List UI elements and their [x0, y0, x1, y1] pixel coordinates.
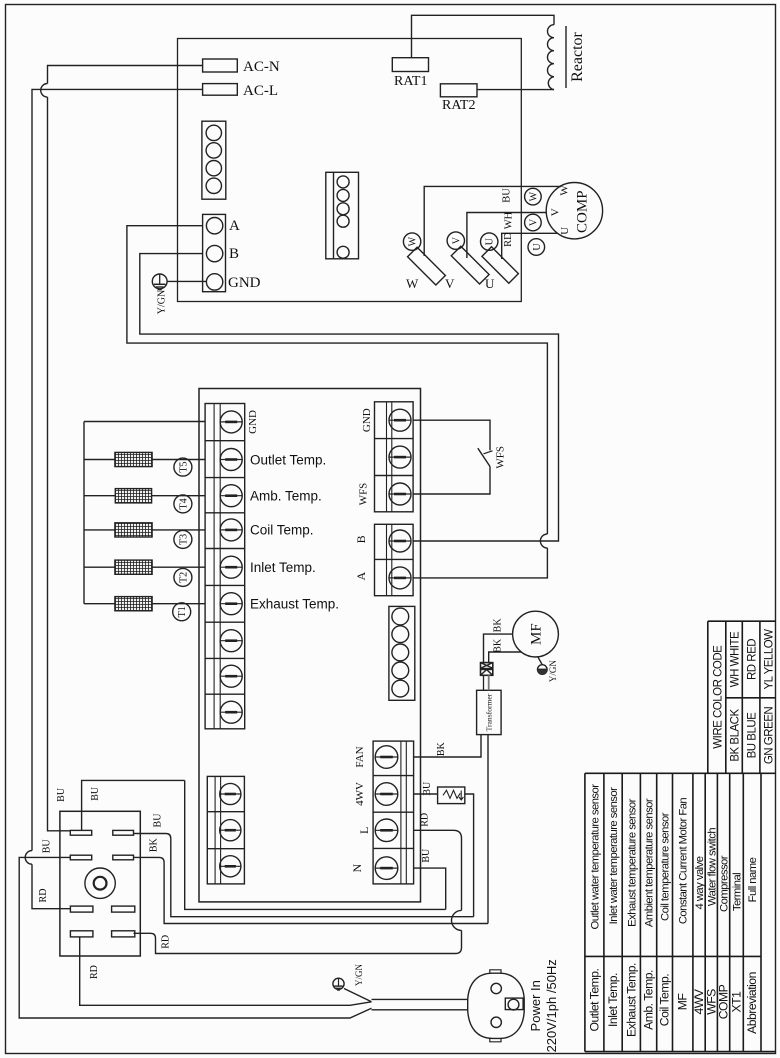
- relay pin L3: [70, 906, 93, 912]
- ground symbol Y/GN (top board): [152, 274, 167, 290]
- svg-text:U: U: [485, 237, 496, 245]
- svg-text:Inlet Temp.: Inlet Temp.: [606, 973, 620, 1027]
- screw terminal x2: [220, 820, 241, 841]
- fuse AC-L: [203, 84, 238, 96]
- svg-text:WFS: WFS: [358, 483, 370, 506]
- wire GND-right to WFS switch: [413, 420, 490, 450]
- wire sensor common bus: [83, 422, 85, 604]
- svg-text:Coil Temp.: Coil Temp.: [658, 974, 672, 1026]
- compressor COMP body: [546, 183, 602, 239]
- power cable sleeve: [372, 999, 468, 1009]
- valve coil 4WV: [438, 787, 465, 804]
- wire WH capV to COMP: [467, 213, 547, 259]
- relay RAT2: [440, 84, 477, 97]
- relay pin R4: [112, 931, 135, 937]
- svg-text:Coil Temp.: Coil Temp.: [250, 523, 314, 538]
- svg-text:GND: GND: [247, 410, 259, 434]
- svg-text:V: V: [549, 208, 561, 216]
- screw terminal x1: [220, 783, 241, 804]
- label bubble T3: [174, 530, 192, 548]
- svg-text:Power In: Power In: [528, 980, 543, 1031]
- screw terminal B: [389, 530, 411, 552]
- svg-text:Amb. Temp.: Amb. Temp.: [250, 489, 322, 504]
- svg-text:RD RED: RD RED: [747, 639, 759, 680]
- svg-text:W: W: [406, 276, 419, 291]
- svg-text:BU: BU: [90, 786, 101, 801]
- wire hop L over R1/R2 wires: [452, 910, 462, 930]
- wire hop A over B: [540, 534, 547, 548]
- svg-text:Transformer: Transformer: [484, 693, 493, 731]
- svg-text:U: U: [532, 243, 543, 251]
- wire ground to GND pin: [167, 280, 206, 282]
- label bubble T1: [173, 603, 191, 621]
- wire B terminal to main board B: [140, 254, 559, 541]
- svg-text:MF: MF: [676, 994, 690, 1011]
- relay pin L4: [70, 931, 93, 937]
- svg-text:W: W: [558, 185, 570, 196]
- svg-text:XT1: XT1: [730, 991, 744, 1013]
- svg-text:Full name: Full name: [747, 857, 759, 902]
- PCB board (top controller): [178, 39, 522, 302]
- sensor T2 (Inlet): [84, 560, 205, 574]
- svg-text:Water flow switch: Water flow switch: [706, 828, 718, 906]
- wire BU capW to COMP: [424, 186, 560, 256]
- svg-text:V: V: [445, 276, 455, 291]
- svg-text:RD: RD: [161, 935, 172, 949]
- relay pin R2: [113, 855, 134, 860]
- relay pin R1: [113, 830, 134, 835]
- svg-text:BK: BK: [436, 741, 447, 756]
- connector A/B/GND: [203, 214, 226, 291]
- svg-text:W: W: [408, 236, 419, 246]
- screw terminal GND-left: [220, 411, 242, 433]
- svg-text:WIRE COLOR CODE: WIRE COLOR CODE: [713, 645, 725, 749]
- wire N to relay L1 via bus2: [82, 780, 446, 909]
- svg-text:Terminal: Terminal: [732, 873, 744, 911]
- table WIRE COLOR CODE frame: [708, 621, 776, 773]
- svg-text:Inlet Temp.: Inlet Temp.: [250, 560, 316, 575]
- svg-text:GND: GND: [361, 408, 373, 432]
- svg-text:BK: BK: [493, 618, 504, 633]
- svg-text:RD: RD: [503, 232, 514, 247]
- capacitor U: [481, 233, 519, 283]
- svg-text:MF: MF: [529, 623, 545, 645]
- svg-text:V: V: [451, 236, 462, 244]
- wire WFS switch to WFS terminal: [413, 467, 490, 495]
- wire L2 to plug lower lead: [19, 857, 371, 1018]
- screw terminal Amb: [220, 485, 242, 507]
- svg-text:BU: BU: [421, 848, 432, 863]
- svg-text:A: A: [354, 572, 368, 581]
- switch WFS blade: [478, 448, 490, 466]
- svg-text:4WV: 4WV: [354, 782, 366, 806]
- screw terminal A: [389, 567, 411, 589]
- svg-text:U: U: [485, 276, 495, 291]
- svg-text:BU: BU: [501, 188, 512, 203]
- screw terminal N: [375, 857, 398, 880]
- comp terminal W: [525, 188, 542, 205]
- svg-text:RD: RD: [38, 889, 49, 903]
- PCB board (main control board): [199, 389, 421, 902]
- svg-text:WFS: WFS: [495, 446, 507, 469]
- wire A terminal to main board A: [127, 226, 548, 578]
- screw terminal Coil: [220, 519, 242, 541]
- screw terminal FAN: [375, 746, 398, 769]
- svg-text:AC-N: AC-N: [243, 59, 280, 75]
- svg-text:RAT2: RAT2: [442, 98, 475, 113]
- relay pin R3: [112, 906, 135, 912]
- svg-text:BU: BU: [56, 787, 67, 802]
- relay coil circle: [85, 868, 115, 898]
- screw terminal spare9: [220, 701, 242, 723]
- wire X to transformer: [483, 675, 485, 690]
- svg-text:A: A: [229, 218, 240, 234]
- svg-text:Y/GN: Y/GN: [548, 660, 558, 682]
- svg-text:BU: BU: [422, 781, 433, 796]
- comp terminal V: [525, 214, 542, 231]
- svg-text:T4: T4: [178, 498, 189, 509]
- svg-text:COMP: COMP: [575, 190, 591, 233]
- svg-text:Outlet Temp.: Outlet Temp.: [250, 452, 326, 467]
- terminal strip FAN/4WV/L/N: [373, 741, 414, 884]
- svg-text:BK BLACK: BK BLACK: [730, 709, 742, 762]
- svg-text:BU: BU: [153, 813, 164, 828]
- svg-text:N: N: [350, 863, 364, 872]
- label bubble T2: [174, 568, 192, 586]
- transformer body: [477, 690, 502, 734]
- svg-text:BU: BU: [42, 839, 53, 854]
- svg-text:Exhaust temperature sensor: Exhaust temperature sensor: [626, 798, 638, 926]
- screw terminal Outlet: [220, 449, 242, 471]
- wire L to relay R4: [134, 830, 462, 953]
- svg-text:WH: WH: [504, 211, 515, 229]
- reactor core line: [565, 26, 567, 88]
- svg-text:Amb. Temp.: Amb. Temp.: [642, 970, 656, 1030]
- svg-text:GND: GND: [228, 275, 261, 291]
- wire FAN to transformer: [414, 735, 481, 757]
- screw terminal GND-right: [389, 409, 411, 431]
- ground symbol Y/GN (power): [333, 978, 344, 990]
- svg-text:YL YELLOW: YL YELLOW: [764, 629, 776, 690]
- svg-text:BK: BK: [149, 837, 160, 852]
- svg-text:Coil temperature sensor: Coil temperature sensor: [660, 812, 672, 921]
- capacitor V: [447, 232, 489, 284]
- sensor T4 (Amb): [84, 489, 205, 503]
- terminal strip XT1 (lower-left 3 pole): [207, 776, 244, 884]
- svg-text:BU BLUE: BU BLUE: [747, 712, 759, 759]
- connector CN1 (4-pin): [202, 121, 226, 199]
- screw terminal 4WV: [375, 783, 398, 806]
- svg-text:BK: BK: [493, 638, 504, 653]
- terminal strip GND/WFS (right top): [375, 402, 414, 512]
- svg-text:4 way valve: 4 way valve: [694, 856, 706, 909]
- svg-text:T2: T2: [178, 572, 189, 583]
- svg-text:AC-L: AC-L: [243, 83, 278, 99]
- screw terminal spare8: [220, 665, 242, 687]
- wire AC-N to left bus down to relay pin L1: [48, 66, 203, 831]
- svg-text:B: B: [229, 246, 239, 262]
- svg-text:T5: T5: [178, 462, 189, 473]
- wire MF upper BK: [484, 634, 513, 663]
- wire plug earth branch: [344, 989, 372, 1002]
- wire hop AC-L bus over L2 wire: [25, 851, 32, 865]
- relay pin L2: [70, 855, 91, 860]
- power plug body: [468, 970, 525, 1042]
- svg-text:Outlet water temperature senso: Outlet water temperature sensor: [589, 784, 601, 930]
- switch WFS contact tick: [484, 451, 493, 454]
- svg-text:Inlet water temperature sensor: Inlet water temperature sensor: [608, 787, 620, 924]
- svg-text:B: B: [354, 535, 368, 543]
- svg-text:L: L: [357, 827, 371, 834]
- svg-text:COMP: COMP: [717, 984, 731, 1019]
- svg-text:Exhaust Temp.: Exhaust Temp.: [624, 963, 638, 1037]
- svg-text:Reactor: Reactor: [569, 31, 586, 81]
- motor MF body: [513, 611, 559, 657]
- wire bus to GND-left: [84, 421, 205, 423]
- svg-text:RD: RD: [89, 965, 100, 979]
- svg-text:WH WHITE: WH WHITE: [730, 631, 742, 687]
- svg-text:V: V: [528, 218, 539, 226]
- svg-text:FAN: FAN: [354, 746, 366, 767]
- svg-text:Compressor: Compressor: [719, 855, 731, 912]
- sensor T1 (Exhaust): [84, 597, 205, 611]
- screw terminal Inlet: [220, 556, 242, 578]
- wire RAT2 to reactor bottom: [477, 89, 554, 91]
- capacitor W: [403, 233, 445, 285]
- wire 4WV coil to relay R1: [134, 794, 474, 917]
- screw terminal x3: [220, 856, 241, 877]
- svg-text:Outlet Temp.: Outlet Temp.: [587, 968, 601, 1031]
- inductor Reactor coil: [548, 25, 555, 90]
- relay RAT1: [392, 58, 428, 72]
- wire MF lower BK: [489, 652, 522, 663]
- connector CN2 (5-pin middle): [326, 172, 359, 258]
- svg-text:Ambient temperature sensor: Ambient temperature sensor: [644, 798, 656, 927]
- sensor T5 (Outlet): [84, 452, 205, 466]
- sensor T3 (Coil): [84, 523, 205, 537]
- wire AC-L to left bus down to relay pin L3: [32, 89, 203, 908]
- wire RAT1 to reactor top: [412, 15, 555, 57]
- comp terminal U: [528, 239, 545, 256]
- wire transformer secondary down to relay R2 wire: [134, 735, 489, 924]
- wire 4WV terminal to 4WV coil: [414, 793, 438, 795]
- svg-text:T1: T1: [177, 606, 188, 617]
- relay K1 body: [60, 811, 140, 956]
- wire MF earth lead: [538, 656, 543, 665]
- wire hop AC-N bus over AC-L wire: [41, 84, 48, 98]
- svg-text:Y/GN: Y/GN: [354, 964, 364, 986]
- screw terminal L: [375, 819, 398, 842]
- terminal strip B/A: [375, 524, 414, 595]
- svg-text:W: W: [528, 191, 539, 201]
- ground symbol Y/GN (MF): [538, 665, 548, 675]
- screw terminal spare7: [220, 630, 242, 652]
- wire L4 to plug upper lead: [80, 937, 372, 1005]
- svg-text:T3: T3: [178, 534, 189, 545]
- relay pin L1: [70, 830, 91, 835]
- svg-text:Constant Current Motor Fan: Constant Current Motor Fan: [678, 798, 690, 925]
- connector plug X (MF to transformer): [481, 663, 493, 676]
- svg-text:U: U: [559, 227, 571, 235]
- screw terminal spare: [389, 446, 411, 468]
- label bubble T5: [174, 458, 192, 476]
- screw terminal Exhaust: [220, 593, 242, 615]
- fuse AC-N: [203, 59, 238, 72]
- screw terminal WFS: [389, 483, 411, 505]
- label bubble T4: [174, 495, 192, 513]
- terminal strip XT-left (sensors): [205, 404, 245, 729]
- svg-text:Exhaust Temp.: Exhaust Temp.: [250, 597, 339, 612]
- svg-text:RD: RD: [420, 813, 431, 827]
- wire RD capU to COMP: [502, 233, 558, 259]
- svg-text:GN GREEN: GN GREEN: [764, 707, 776, 765]
- table Abbreviation/Full-name frame: [585, 773, 776, 1051]
- connector CN3 (5-pin main board): [389, 606, 415, 700]
- svg-text:RAT1: RAT1: [394, 74, 427, 89]
- svg-text:Abbreviation: Abbreviation: [745, 972, 759, 1034]
- svg-text:220V/1ph /50Hz: 220V/1ph /50Hz: [544, 959, 559, 1052]
- svg-text:Y/GN: Y/GN: [157, 290, 168, 314]
